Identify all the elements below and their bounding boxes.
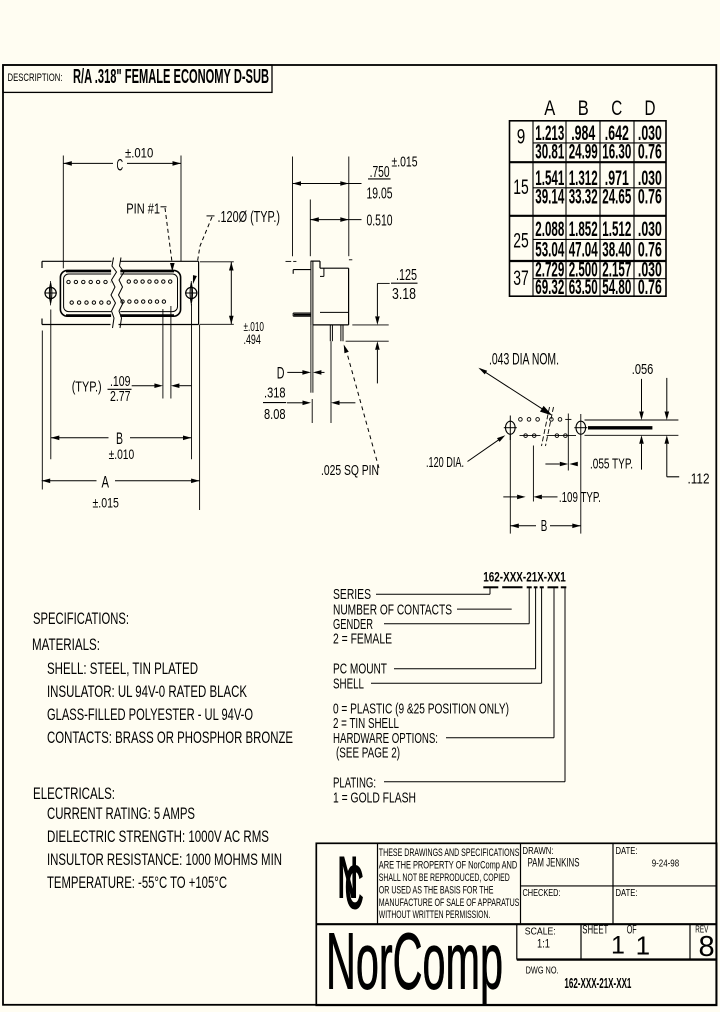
svg-text:2.77: 2.77: [110, 389, 131, 405]
svg-text:9: 9: [517, 126, 526, 149]
svg-text:SHEET: SHEET: [582, 925, 608, 937]
svg-text:C: C: [345, 853, 364, 923]
svg-text:.109 TYP.: .109 TYP.: [559, 489, 601, 506]
svg-text:DATE:: DATE:: [616, 846, 638, 857]
svg-text:MATERIALS:: MATERIALS:: [32, 635, 100, 654]
svg-text:.494: .494: [244, 331, 261, 347]
svg-text:0.76: 0.76: [638, 185, 662, 208]
svg-text:C: C: [611, 96, 622, 120]
svg-text:DESCRIPTION:: DESCRIPTION:: [8, 72, 63, 84]
svg-text:162-XXX-21X-XX1: 162-XXX-21X-XX1: [564, 976, 631, 992]
svg-text:DWG NO.: DWG NO.: [526, 966, 559, 977]
svg-text:25: 25: [513, 230, 529, 253]
svg-text:.025 SQ PIN: .025 SQ PIN: [321, 462, 379, 479]
svg-text:.750: .750: [370, 164, 390, 181]
svg-text:DIELECTRIC STRENGTH: 1000V AC: DIELECTRIC STRENGTH: 1000V AC RMS: [47, 827, 269, 846]
svg-text:37: 37: [513, 267, 529, 290]
svg-text:39.14: 39.14: [535, 185, 564, 208]
svg-text:THESE DRAWINGS AND SPECIFICATI: THESE DRAWINGS AND SPECIFICATIONS: [379, 847, 520, 859]
svg-text:1 = GOLD FLASH: 1 = GOLD FLASH: [333, 790, 416, 807]
svg-text:16.30: 16.30: [602, 141, 631, 164]
svg-text:C: C: [117, 155, 124, 174]
svg-text:PIN #1: PIN #1: [126, 202, 160, 218]
svg-text:INSULATOR: UL 94V-0 RATED BLAC: INSULATOR: UL 94V-0 RATED BLACK: [47, 682, 247, 701]
svg-text:A: A: [102, 473, 110, 492]
svg-text:R/A .318" FEMALE ECONOMY D-SUB: R/A .318" FEMALE ECONOMY D-SUB: [73, 66, 269, 88]
svg-text:±.010: ±.010: [109, 446, 135, 462]
svg-text:TEMPERATURE: -55°C TO +105°C: TEMPERATURE: -55°C TO +105°C: [47, 873, 227, 892]
svg-text:.120Ø (TYP.): .120Ø (TYP.): [218, 209, 281, 226]
svg-text:±.010: ±.010: [125, 145, 153, 161]
svg-text:.120 DIA.: .120 DIA.: [426, 454, 464, 471]
svg-text:(TYP.): (TYP.): [72, 379, 102, 395]
svg-text:63.50: 63.50: [569, 276, 598, 299]
svg-text:1:1: 1:1: [537, 939, 550, 951]
svg-text:1: 1: [611, 932, 625, 960]
svg-text:DRAWN:: DRAWN:: [523, 846, 554, 857]
svg-text:SHELL: SHELL: [333, 676, 364, 693]
svg-text:SERIES: SERIES: [333, 586, 371, 603]
svg-text:.055 TYP.: .055 TYP.: [590, 456, 633, 473]
svg-text:24.65: 24.65: [602, 185, 631, 208]
svg-text:54.80: 54.80: [602, 276, 631, 299]
svg-text:D: D: [645, 96, 656, 120]
svg-text:CONTACTS: BRASS OR PHOSPHOR BR: CONTACTS: BRASS OR PHOSPHOR BRONZE: [47, 728, 293, 747]
svg-text:162-XXX-21X-XX1: 162-XXX-21X-XX1: [483, 570, 566, 585]
svg-text:SHELL: STEEL, TIN PLATED: SHELL: STEEL, TIN PLATED: [47, 659, 198, 678]
svg-text:9-24-98: 9-24-98: [652, 858, 680, 870]
svg-text:SCALE:: SCALE:: [525, 925, 556, 937]
svg-text:.043 DIA NOM.: .043 DIA NOM.: [489, 350, 559, 369]
svg-text:A: A: [544, 96, 556, 120]
svg-text:±.015: ±.015: [93, 494, 120, 510]
svg-text:B: B: [578, 96, 589, 120]
svg-text:PAM JENKINS: PAM JENKINS: [528, 858, 580, 870]
svg-text:0.510: 0.510: [367, 213, 393, 230]
svg-text:30.81: 30.81: [535, 141, 564, 164]
svg-text:0.76: 0.76: [638, 276, 662, 299]
svg-text:ARE THE PROPERTY OF NorComp AN: ARE THE PROPERTY OF NorComp AND: [379, 859, 518, 871]
svg-text:24.99: 24.99: [569, 141, 598, 164]
svg-text:SPECIFICATIONS:: SPECIFICATIONS:: [33, 609, 129, 628]
svg-text:.109: .109: [110, 374, 131, 390]
svg-text:.112: .112: [688, 470, 710, 487]
svg-text:DATE:: DATE:: [616, 888, 638, 899]
svg-text:NorComp: NorComp: [326, 916, 503, 1005]
svg-text:INSULTOR RESISTANCE: 1000 MOHM: INSULTOR RESISTANCE: 1000 MOHMS MIN: [47, 850, 282, 869]
svg-text:GLASS-FILLED POLYESTER - UL 94: GLASS-FILLED POLYESTER - UL 94V-O: [47, 705, 253, 724]
svg-text:3.18: 3.18: [392, 286, 416, 303]
svg-text:.318: .318: [264, 385, 286, 402]
svg-text:ELECTRICALS:: ELECTRICALS:: [33, 784, 115, 803]
svg-text:0.76: 0.76: [638, 141, 662, 164]
svg-text:33.32: 33.32: [569, 185, 598, 208]
svg-text:69.32: 69.32: [535, 276, 564, 299]
svg-text:2 = FEMALE: 2 = FEMALE: [333, 631, 392, 648]
svg-text:15: 15: [513, 176, 529, 199]
svg-text:MANUFACTURE OF SALE OF APPARAT: MANUFACTURE OF SALE OF APPARATUS: [379, 897, 520, 909]
svg-text:±.015: ±.015: [392, 153, 418, 170]
svg-text:D: D: [277, 364, 285, 383]
svg-text:1: 1: [636, 931, 650, 961]
svg-text:CHECKED:: CHECKED:: [523, 888, 561, 899]
svg-text:SHALL NOT BE REPRODUCED, COPIE: SHALL NOT BE REPRODUCED, COPIED: [379, 872, 510, 884]
svg-text:CURRENT RATING: 5 AMPS: CURRENT RATING: 5 AMPS: [47, 804, 195, 823]
svg-text:B: B: [541, 518, 548, 535]
svg-text:.125: .125: [396, 267, 417, 284]
svg-text:19.05: 19.05: [367, 185, 393, 202]
svg-text:8: 8: [699, 931, 715, 963]
svg-text:8.08: 8.08: [264, 406, 286, 423]
svg-text:OR USED AS THE BASIS FOR THE: OR USED AS THE BASIS FOR THE: [379, 884, 494, 896]
svg-text:.056: .056: [632, 361, 654, 378]
svg-text:(SEE PAGE 2): (SEE PAGE 2): [336, 745, 400, 762]
